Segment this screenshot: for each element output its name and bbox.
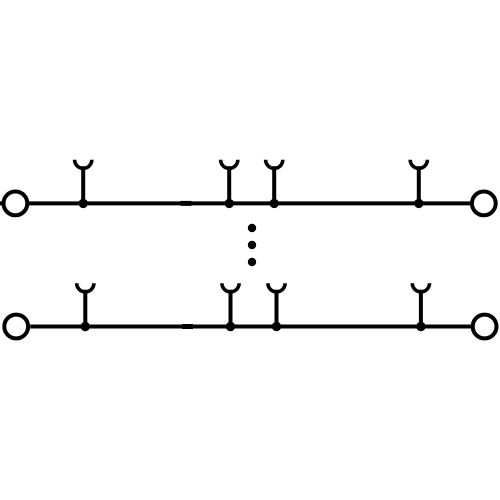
- terminal (right, bottom rail): [473, 315, 497, 339]
- wire: top rail conductor: [0, 201, 470, 205]
- terminal (right, top rail): [472, 192, 496, 216]
- junction (clamp 1 / bottom rail): [81, 322, 90, 331]
- junction (clamp 3 / top rail): [270, 199, 279, 208]
- clamp contact 3 (top rail): [266, 160, 283, 204]
- clamp contact 4 (bottom rail): [412, 283, 429, 326]
- junction (clamp 4 / bottom rail): [416, 322, 425, 331]
- clamp contact 4 (top rail): [410, 160, 427, 204]
- clamp contact 2 (top rail): [221, 160, 238, 204]
- terminal (left, bottom rail): [4, 315, 28, 339]
- junction (clamp 2 / bottom rail): [226, 322, 235, 331]
- clamp contact 1 (bottom rail): [77, 283, 94, 326]
- junction (clamp 1 / top rail): [79, 199, 88, 208]
- terminal (left, top rail): [4, 192, 28, 216]
- clamp contact 2 (bottom rail): [222, 283, 239, 326]
- clamp contact 1 (top rail): [75, 160, 92, 204]
- junction (clamp 4 / top rail): [414, 199, 423, 208]
- junction (clamp 3 / bottom rail): [272, 322, 281, 331]
- clamp contact 3 (bottom rail): [268, 283, 285, 326]
- continuation dots (ellipsis between rails): [248, 224, 256, 266]
- wire: bottom rail conductor: [30, 325, 471, 329]
- junction (clamp 2 / top rail): [225, 199, 234, 208]
